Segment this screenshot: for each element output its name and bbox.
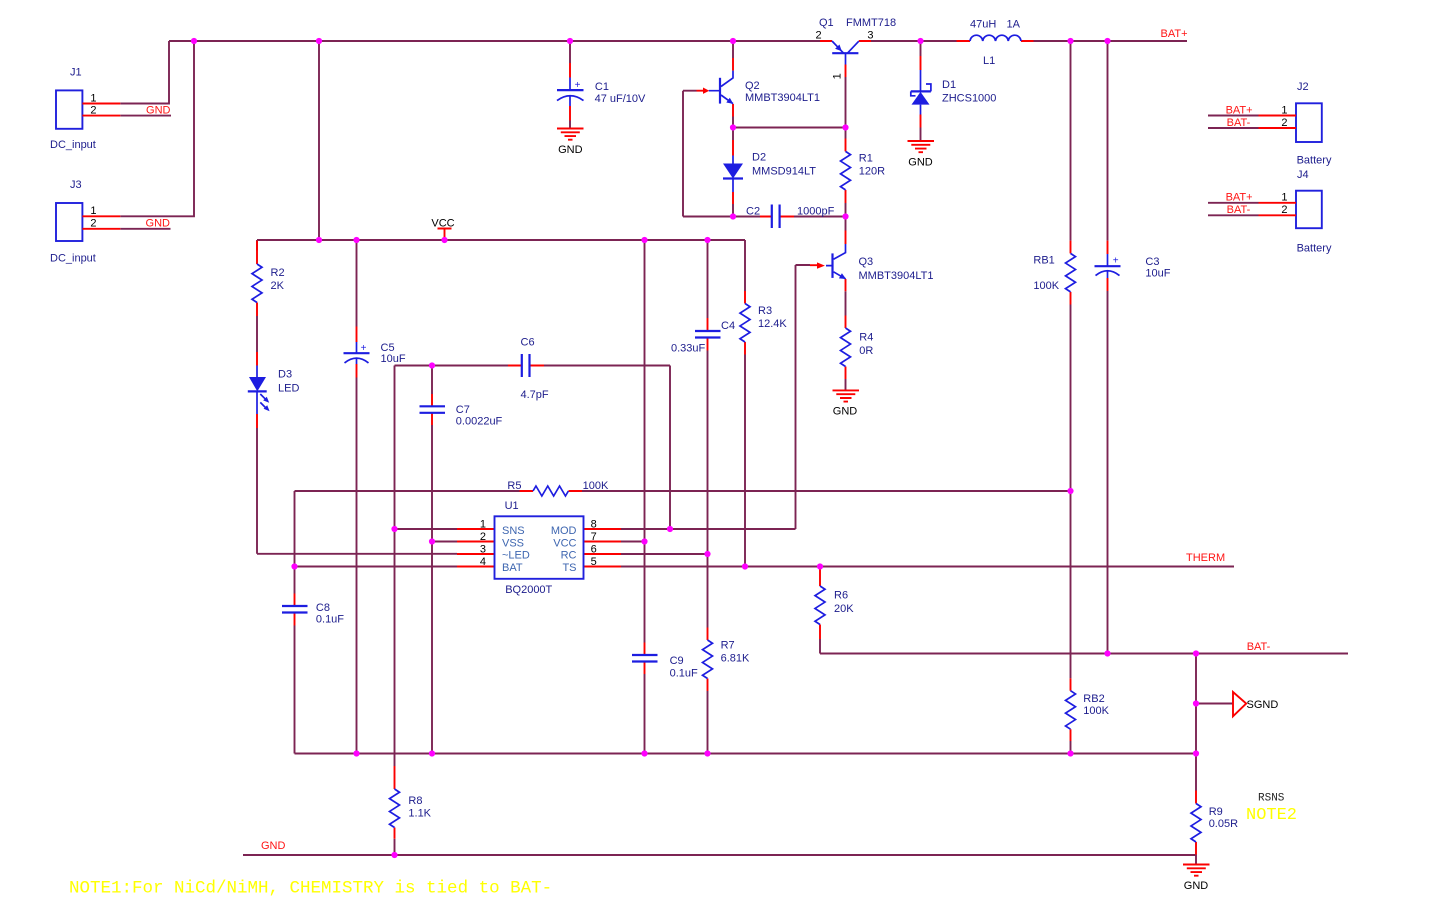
wire: Q2 emitter / D2 column and mid row xyxy=(733,117,846,217)
wire: Q1 base / R1 / Q3 collector column xyxy=(845,77,847,231)
svg-text:GND: GND xyxy=(558,144,583,156)
svg-text:4.7pF: 4.7pF xyxy=(521,389,549,401)
net label BAT+ (J4 pin1) xyxy=(1226,192,1253,204)
net label BAT- (J4 pin2) xyxy=(1227,204,1251,216)
inductor L1 47uH xyxy=(957,18,1034,67)
transistor Q3 MMBT3904LT1 xyxy=(810,231,934,292)
svg-text:RB1: RB1 xyxy=(1033,255,1054,267)
svg-text:U1: U1 xyxy=(505,500,519,512)
svg-text:R6: R6 xyxy=(834,590,848,602)
wire: C3 vertical xyxy=(1107,41,1109,654)
svg-text:+: + xyxy=(575,80,581,91)
svg-text:0.1uF: 0.1uF xyxy=(316,614,344,626)
svg-text:LED: LED xyxy=(278,383,299,395)
capacitor C3 10uF xyxy=(1095,241,1171,291)
net label BAT- (row) xyxy=(1247,641,1271,653)
svg-text:C8: C8 xyxy=(316,602,330,614)
wire: VCC rail xyxy=(257,239,745,241)
svg-text:47uH: 47uH xyxy=(970,18,996,30)
svg-text:R9: R9 xyxy=(1209,806,1223,818)
svg-text:RSNS: RSNS xyxy=(1258,793,1285,805)
svg-text:10uF: 10uF xyxy=(1145,268,1170,280)
svg-text:BAT: BAT xyxy=(502,562,523,574)
svg-text:RC: RC xyxy=(561,550,577,562)
svg-text:VCC: VCC xyxy=(553,537,576,549)
svg-text:3: 3 xyxy=(480,543,486,555)
capacitor C7 0.0022uF xyxy=(420,394,503,428)
svg-text:BAT-: BAT- xyxy=(1227,204,1251,216)
svg-text:R5: R5 xyxy=(507,480,521,492)
svg-text:GND: GND xyxy=(261,840,286,852)
svg-text:BQ2000T: BQ2000T xyxy=(505,584,552,596)
svg-text:Battery: Battery xyxy=(1297,155,1332,167)
capacitor C1 xyxy=(557,63,646,121)
svg-text:1: 1 xyxy=(831,73,843,79)
svg-text:1A: 1A xyxy=(1007,18,1021,30)
wire: C4 / R7 vertical and RC row xyxy=(621,240,708,754)
svg-text:120R: 120R xyxy=(859,166,885,178)
svg-text:BAT+: BAT+ xyxy=(1161,28,1188,40)
svg-text:L1: L1 xyxy=(983,55,995,67)
svg-text:VCC: VCC xyxy=(431,217,454,229)
svg-text:SNS: SNS xyxy=(502,525,525,537)
wire: MOD pin8 row to Q3 base xyxy=(621,265,810,529)
svg-text:12.4K: 12.4K xyxy=(758,318,787,330)
svg-text:THERM: THERM xyxy=(1186,552,1225,564)
svg-text:+: + xyxy=(1113,256,1119,267)
svg-text:2: 2 xyxy=(480,531,486,543)
svg-text:VSS: VSS xyxy=(502,537,524,549)
resistor R4 0R xyxy=(841,316,874,380)
svg-text:1.1K: 1.1K xyxy=(408,808,431,820)
svg-text:3: 3 xyxy=(867,30,873,42)
wire: C1 branch xyxy=(569,41,571,129)
net label GND (bottom rail) xyxy=(261,840,286,852)
resistor R6 20K xyxy=(815,568,854,639)
connector J4 xyxy=(1259,169,1332,255)
svg-text:47 uF/10V: 47 uF/10V xyxy=(595,93,646,105)
wire: R6 branch xyxy=(819,639,821,654)
svg-text:C4: C4 xyxy=(721,320,735,332)
svg-text:1: 1 xyxy=(90,92,96,104)
svg-text:100K: 100K xyxy=(1083,705,1109,717)
capacitor C6 4.7pF xyxy=(508,336,549,401)
svg-text:J4: J4 xyxy=(1297,169,1309,181)
wire: Q2 collector branch xyxy=(732,41,734,58)
wire: RB1 vertical xyxy=(1070,41,1072,754)
svg-text:GND: GND xyxy=(146,217,171,229)
svg-text:BAT-: BAT- xyxy=(1247,641,1271,653)
note NOTE1 xyxy=(69,879,552,897)
net label BAT+ (J2 pin1) xyxy=(1226,104,1253,116)
svg-text:J3: J3 xyxy=(70,179,82,191)
net label GND (J1 pin2) xyxy=(146,104,171,116)
svg-text:R8: R8 xyxy=(408,795,422,807)
resistor R8 1.1K xyxy=(390,766,432,839)
svg-text:0R: 0R xyxy=(859,345,873,357)
svg-text:C2: C2 xyxy=(746,206,760,218)
op-amp U1 BQ2000T xyxy=(457,500,621,596)
svg-text:0.33uF: 0.33uF xyxy=(671,343,706,355)
svg-text:Q3: Q3 xyxy=(859,256,874,268)
connector J2 xyxy=(1259,81,1332,167)
svg-text:0.1uF: 0.1uF xyxy=(670,668,698,680)
svg-text:GND: GND xyxy=(146,104,171,116)
svg-text:D3: D3 xyxy=(278,369,292,381)
svg-text:SGND: SGND xyxy=(1247,699,1279,711)
resistor RB1 100K xyxy=(1033,241,1075,305)
svg-text:2: 2 xyxy=(816,30,822,42)
svg-text:1000pF: 1000pF xyxy=(797,206,835,218)
port SGND xyxy=(1233,692,1278,716)
svg-text:NOTE1:For NiCd/NiMH, CHEMISTRY: NOTE1:For NiCd/NiMH, CHEMISTRY is tied t… xyxy=(69,879,552,897)
capacitor C9 0.1uF xyxy=(632,643,698,680)
svg-text:C1: C1 xyxy=(595,81,609,93)
svg-text:R3: R3 xyxy=(758,305,772,317)
note NOTE2 xyxy=(1246,806,1297,825)
wire: C7 column and pin2 stub xyxy=(432,366,457,754)
diode D2 MMSD914LT xyxy=(723,140,816,204)
wire: BAT pin4 row and C8 column xyxy=(295,567,458,754)
svg-text:5: 5 xyxy=(591,556,597,568)
svg-text:6: 6 xyxy=(591,543,597,555)
svg-text:DC_input: DC_input xyxy=(50,139,96,151)
svg-text:NOTE2: NOTE2 xyxy=(1246,806,1297,825)
wire: R3 branch xyxy=(744,240,746,567)
svg-text:20K: 20K xyxy=(834,603,854,615)
svg-text:2: 2 xyxy=(90,217,96,229)
transistor Q2 MMBT3904LT1 xyxy=(697,58,821,117)
wire: C9 / VCC pin7 vertical xyxy=(621,240,645,754)
ground (under C1) xyxy=(557,129,584,157)
wire: bottom GND rail xyxy=(243,854,1196,856)
svg-text:1: 1 xyxy=(90,205,96,217)
resistor R2 2K xyxy=(252,241,285,316)
wire: top BAT+ rail xyxy=(169,40,1187,42)
svg-text:2K: 2K xyxy=(271,280,285,292)
resistor R3 12.4K xyxy=(740,291,787,355)
svg-text:MMBT3904LT1: MMBT3904LT1 xyxy=(859,270,934,282)
wire: R2/D3 branch and pin3 row xyxy=(257,240,457,554)
transistor Q1 FMMT718 xyxy=(816,17,897,79)
svg-text:MMSD914LT: MMSD914LT xyxy=(752,166,816,178)
svg-text:8: 8 xyxy=(591,518,597,530)
wire: bottom rail xyxy=(295,753,1197,755)
capacitor C2 1000pF xyxy=(746,205,835,229)
svg-text:C6: C6 xyxy=(521,336,535,348)
svg-text:~LED: ~LED xyxy=(502,550,530,562)
svg-text:R7: R7 xyxy=(721,640,735,652)
svg-text:0.05R: 0.05R xyxy=(1209,818,1238,830)
svg-text:4: 4 xyxy=(480,556,486,568)
net label BAT+ (top rail) xyxy=(1161,28,1188,40)
LED D3 xyxy=(248,352,300,428)
svg-text:C7: C7 xyxy=(456,404,470,416)
wire: D1 branch xyxy=(920,41,922,141)
ground (under R4) xyxy=(833,390,860,417)
resistor R7 6.81K xyxy=(703,628,751,692)
svg-text:Q1: Q1 xyxy=(819,17,834,29)
svg-text:BAT-: BAT- xyxy=(1227,117,1251,129)
svg-text:GND: GND xyxy=(833,406,858,418)
svg-text:BAT+: BAT+ xyxy=(1226,104,1253,116)
net label BAT- (J2 pin2) xyxy=(1227,117,1251,129)
svg-text:R4: R4 xyxy=(859,332,873,344)
svg-text:MMBT3904LT1: MMBT3904LT1 xyxy=(745,92,820,104)
svg-text:GND: GND xyxy=(908,157,933,169)
wire: Q3 emitter / R4 column xyxy=(845,291,847,390)
ground (under R9) xyxy=(1183,865,1210,893)
svg-text:J2: J2 xyxy=(1297,81,1309,93)
connector J1 xyxy=(50,67,120,151)
svg-text:1: 1 xyxy=(480,518,486,530)
connector J3 xyxy=(50,179,120,265)
svg-text:FMMT718: FMMT718 xyxy=(846,17,896,29)
svg-text:1: 1 xyxy=(1281,192,1287,204)
svg-text:MOD: MOD xyxy=(551,525,577,537)
svg-text:R1: R1 xyxy=(859,153,873,165)
capacitor C8 0.1uF xyxy=(282,594,344,626)
svg-text:2: 2 xyxy=(90,104,96,116)
svg-text:100K: 100K xyxy=(583,480,609,492)
svg-text:J1: J1 xyxy=(70,67,82,79)
capacitor C5 10uF xyxy=(344,327,406,378)
wire: Q2 base loop and C2 row xyxy=(683,91,846,217)
resistor R5 100K xyxy=(507,480,609,496)
svg-text:GND: GND xyxy=(1184,880,1209,892)
wire: R5 row xyxy=(295,491,1071,567)
node RSNS xyxy=(1258,793,1285,805)
wire: TS THERM row xyxy=(621,566,1234,568)
wire: J3 pin2 GND stub xyxy=(120,228,170,230)
wire: C6 row / SNS column / R8 bottom xyxy=(395,366,671,856)
svg-text:2: 2 xyxy=(1281,117,1287,129)
capacitor C4 0.33uF xyxy=(671,318,735,355)
svg-text:TS: TS xyxy=(562,562,576,574)
svg-text:Battery: Battery xyxy=(1297,243,1332,255)
svg-text:+: + xyxy=(361,343,367,354)
svg-text:D1: D1 xyxy=(942,79,956,91)
svg-text:RB2: RB2 xyxy=(1083,693,1104,705)
wire: DC rail to VCC rail vertical xyxy=(318,41,320,240)
ground (under D1) xyxy=(908,141,935,169)
svg-text:100K: 100K xyxy=(1033,280,1059,292)
svg-text:BAT+: BAT+ xyxy=(1226,192,1253,204)
svg-text:1: 1 xyxy=(1281,104,1287,116)
resistor R9 0.05R xyxy=(1191,791,1238,855)
svg-text:2: 2 xyxy=(1281,204,1287,216)
svg-text:R2: R2 xyxy=(271,267,285,279)
svg-text:C9: C9 xyxy=(670,655,684,667)
wire: J3 pin1 to top rail xyxy=(120,41,194,216)
wire: J1 pin2 GND stub xyxy=(120,115,171,117)
svg-text:0.0022uF: 0.0022uF xyxy=(456,416,503,428)
wire: SGND / R9 column xyxy=(1196,654,1233,865)
svg-text:6.81K: 6.81K xyxy=(721,653,750,665)
svg-text:ZHCS1000: ZHCS1000 xyxy=(942,93,996,105)
net label THERM xyxy=(1186,552,1225,564)
wire: C5 branch xyxy=(356,240,358,754)
svg-text:Q2: Q2 xyxy=(745,80,760,92)
svg-text:7: 7 xyxy=(591,531,597,543)
svg-text:D2: D2 xyxy=(752,152,766,164)
net label GND (J3 pin2) xyxy=(146,217,171,229)
svg-text:C3: C3 xyxy=(1145,256,1159,268)
resistor RB2 100K xyxy=(1066,678,1110,741)
wire: BAT- row xyxy=(820,653,1348,655)
wire: J1 pin1 to top rail xyxy=(120,41,169,104)
svg-text:DC_input: DC_input xyxy=(50,253,96,265)
diode D1 ZHCS1000 (schottky) xyxy=(911,56,997,128)
svg-text:10uF: 10uF xyxy=(381,353,406,365)
resistor R1 120R xyxy=(841,139,886,204)
power symbol VCC xyxy=(431,217,454,240)
wire: J2 J4 battery stubs xyxy=(1208,116,1259,216)
